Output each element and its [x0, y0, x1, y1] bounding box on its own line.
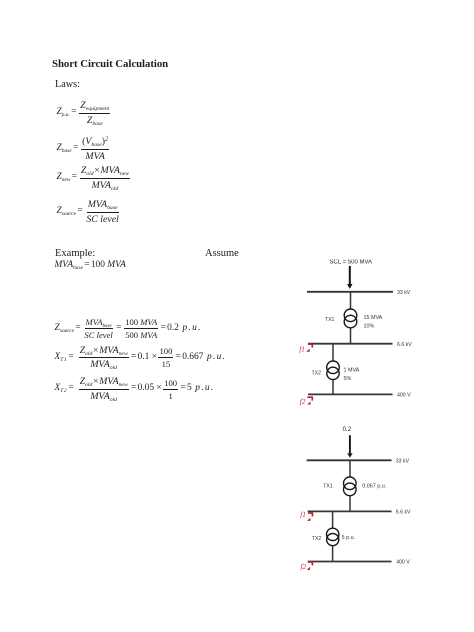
wire TX1 to 6.6kV bus (diagram 2) [349, 496, 351, 512]
wire 6.6kV bus to TX2 (diagram 1) [332, 344, 334, 362]
formula 6 [55, 344, 227, 372]
formula 2 [57, 135, 111, 163]
svg-text:10%: 10% [364, 323, 375, 329]
svg-text:f1: f1 [299, 345, 305, 353]
label 1 MVA 5% (diagram 1) [344, 368, 360, 382]
assume heading [205, 248, 239, 259]
svg-text:0.067 p.u.: 0.067 p.u. [362, 484, 386, 490]
label 15 MVA 10% (diagram 1) [364, 315, 383, 330]
wire TX2 to 400V bus (diagram 2) [332, 546, 334, 562]
svg-text:6.6 kV: 6.6 kV [396, 510, 411, 516]
svg-text:TX1: TX1 [325, 317, 335, 323]
formula 3 [57, 164, 132, 192]
source infeed arrow (diagram 2) [347, 435, 352, 458]
svg-text:SCL = 500 MVA: SCL = 500 MVA [330, 260, 373, 266]
svg-text:TX2: TX2 [312, 536, 322, 542]
transformer TX2 (diagram 1) [327, 361, 340, 380]
bus 400 V (diagram 2) [308, 561, 392, 563]
bus 6.6 kV (diagram 1) [308, 343, 393, 345]
bus 33 kV (diagram 2) [307, 459, 392, 461]
laws heading [55, 79, 80, 90]
svg-text:TX2: TX2 [312, 370, 322, 376]
svg-text:5 p.u.: 5 p.u. [342, 535, 356, 541]
example heading [55, 248, 95, 259]
wire 33kV bus to TX1 (diagram 2) [349, 460, 351, 477]
fault marker f2 (diagram 1) [300, 397, 313, 406]
formula 4 [57, 198, 121, 226]
title [52, 58, 168, 70]
svg-text:5%: 5% [344, 376, 352, 382]
wire TX1 to 6.6kV bus (diagram 1) [350, 328, 352, 344]
bus 400 V (diagram 1) [308, 393, 393, 395]
svg-text:TX1: TX1 [323, 483, 333, 489]
wire 33kV bus to TX1 (diagram 1) [350, 292, 352, 310]
transformer TX1 (diagram 1) [344, 309, 357, 328]
bus 33 kV (diagram 1) [307, 291, 393, 293]
fault marker f1 (diagram 1) [299, 344, 312, 353]
fault marker f2 (diagram 2) [301, 562, 313, 571]
bus 6.6 kV (diagram 2) [308, 510, 392, 512]
svg-text:400 V: 400 V [396, 560, 410, 566]
svg-text:1 MVA: 1 MVA [344, 368, 360, 374]
source infeed arrow (diagram 1) [347, 266, 352, 289]
svg-text:400 V: 400 V [397, 393, 411, 399]
svg-text:33 kV: 33 kV [396, 459, 410, 465]
formula 7 [55, 375, 215, 403]
formula 5 [55, 316, 202, 341]
svg-text:f2: f2 [300, 398, 306, 406]
svg-text:f2: f2 [301, 563, 307, 571]
MVAbase = 100 MVA [55, 260, 126, 271]
svg-text:f1: f1 [300, 511, 306, 519]
wire 6.6kV bus to TX2 (diagram 2) [332, 511, 334, 528]
fault marker f1 (diagram 2) [300, 511, 312, 521]
svg-text:15 MVA: 15 MVA [364, 315, 383, 321]
transformer TX2 (diagram 2) [327, 528, 339, 546]
transformer TX1 (diagram 2) [344, 477, 357, 496]
svg-text:6.6 kV: 6.6 kV [397, 342, 412, 348]
wire TX2 to 400V bus (diagram 1) [332, 380, 334, 395]
formula 1 [57, 99, 112, 127]
svg-text:0.2: 0.2 [343, 426, 352, 433]
svg-text:33 kV: 33 kV [397, 290, 411, 296]
